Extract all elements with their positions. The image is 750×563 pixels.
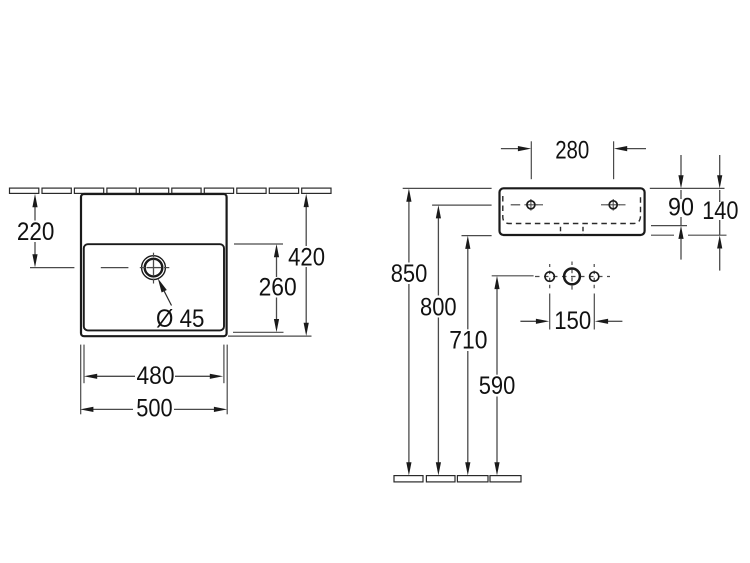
dim 260 vertical line	[276, 257, 278, 319]
tap hole outer circle	[142, 256, 166, 280]
dim 220 top arrow	[32, 194, 37, 207]
extension line inner-bottom right (260 bottom)	[233, 331, 284, 333]
wall hatch line (top, plan view)	[10, 188, 332, 193]
dim 420 bottom arrow	[304, 323, 309, 336]
tap hole horizontal centerline dashes	[101, 267, 170, 269]
svg-text:850: 850	[391, 260, 428, 288]
dim 850 vertical line	[406, 188, 411, 475]
dim 150 extension lines	[550, 294, 595, 330]
dim 150 right arrow	[595, 319, 623, 324]
dim 480 right arrow	[210, 374, 223, 379]
dim 420 top arrow	[304, 194, 309, 207]
dim 260 bottom arrow	[274, 319, 279, 332]
svg-text:800: 800	[420, 293, 457, 321]
dim 500 line	[93, 408, 215, 410]
dim 590 vertical line	[494, 276, 499, 476]
deck tap hole left	[511, 199, 543, 211]
drain hidden lines (dashed)	[561, 227, 584, 236]
svg-text:280: 280	[555, 137, 589, 165]
deck tap hole right	[601, 199, 626, 211]
dim 90 line and arrows	[678, 155, 683, 260]
hidden bowl outline (dashed)	[503, 196, 641, 224]
basin front outline	[500, 188, 645, 235]
extension line outer-bottom right (420 bottom)	[228, 335, 312, 337]
dim 850 top extension line	[403, 187, 492, 189]
dim 220 vertical line	[34, 207, 36, 255]
dim 710 vertical line	[465, 236, 470, 476]
right extension lines (90/140)	[650, 188, 727, 235]
dim 480 line	[97, 375, 211, 377]
svg-text:590: 590	[479, 372, 516, 400]
dim 150 left arrow	[520, 319, 549, 324]
tap hole inner circle	[145, 259, 163, 277]
tap hole vertical centerline dashes	[153, 253, 155, 284]
svg-text:90: 90	[668, 194, 694, 222]
wall fixing holes centerline (dashed)	[535, 262, 610, 293]
dim 710 top extension line	[462, 235, 492, 237]
dim 220 bottom extension line	[30, 267, 74, 269]
dim 420 vertical line	[305, 207, 307, 323]
leader arrow to tap hole	[158, 278, 172, 305]
dim 500 right arrow	[214, 407, 227, 412]
wall fixing hole middle (large)	[564, 269, 580, 285]
svg-text:420: 420	[288, 244, 325, 272]
floor hatch line	[394, 476, 521, 482]
svg-text:Ø 45: Ø 45	[156, 305, 204, 333]
svg-text:220: 220	[17, 218, 55, 246]
svg-text:500: 500	[136, 395, 172, 423]
svg-text:710: 710	[449, 327, 487, 355]
svg-text:150: 150	[554, 307, 591, 335]
dim 590 top extension line	[492, 275, 534, 277]
svg-text:260: 260	[259, 274, 297, 302]
basin outer rectangle (plan)	[81, 194, 227, 336]
dim 500 left arrow	[80, 407, 93, 412]
dim 140 line and arrows	[717, 155, 722, 271]
dim 280 extension lines	[531, 141, 613, 179]
svg-text:140: 140	[702, 197, 738, 225]
dim 260 top arrow	[274, 244, 279, 257]
dim 800 top extension line	[432, 204, 492, 206]
basin inner bowl rectangle (plan)	[84, 244, 224, 330]
dim 800 vertical line	[436, 205, 441, 475]
dim 280 right arrow (outside pointing left)	[614, 146, 646, 151]
wall fixing hole right	[590, 272, 599, 281]
extension lines below basin for 480/500	[81, 345, 228, 415]
svg-text:480: 480	[137, 362, 175, 390]
dim 280 left arrow (outside pointing right)	[501, 146, 531, 151]
dim 480 left arrow	[84, 374, 97, 379]
wall fixing hole left	[545, 272, 554, 281]
extension line inner-top right (260 top)	[234, 243, 283, 245]
dim 220 bottom arrow	[32, 254, 37, 267]
